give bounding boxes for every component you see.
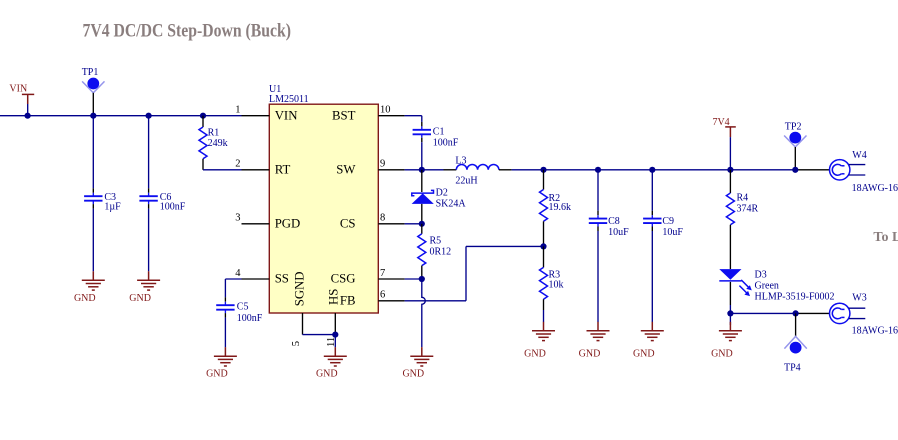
svg-text:18AWG-16: 18AWG-16 (852, 326, 898, 337)
capacitor C8 (589, 215, 607, 226)
svg-text:C8: C8 (608, 216, 620, 227)
inductor L3 (456, 164, 499, 169)
lead W3 pin (797, 312, 830, 314)
wire SW node (405, 169, 444, 171)
test point TP1 (82, 78, 104, 93)
LED D3 (719, 269, 752, 296)
svg-text:249k: 249k (208, 138, 228, 149)
resistor R3 (540, 267, 548, 299)
svg-text:Green: Green (755, 281, 779, 292)
junction TP4 / W3 rail (793, 310, 799, 316)
wire rail to C6 (148, 116, 150, 189)
svg-text:9: 9 (380, 159, 385, 170)
ground below R3 (524, 322, 555, 360)
svg-text:374R: 374R (737, 204, 759, 215)
svg-text:GND: GND (524, 348, 546, 359)
diode D2 (Schottky) (412, 190, 434, 204)
svg-text:R1: R1 (208, 128, 220, 139)
capacitor C9 (643, 215, 661, 226)
lead R2 bottom (543, 221, 545, 246)
connector W4 (830, 160, 866, 180)
wire C5 vertical (224, 279, 226, 297)
wire R4 to D3 (729, 225, 731, 269)
svg-text:C1: C1 (433, 127, 445, 138)
svg-text:10: 10 (380, 104, 391, 115)
junction R2 / R3 / FB (540, 243, 546, 249)
svg-text:CS: CS (340, 216, 356, 230)
svg-text:7V4 DC/DC Step-Down (Buck): 7V4 DC/DC Step-Down (Buck) (83, 21, 292, 42)
svg-text:VIN: VIN (9, 83, 27, 94)
wire pin 7 to node (405, 278, 422, 280)
lead R4 top (729, 170, 731, 193)
svg-text:PGD: PGD (275, 216, 301, 230)
svg-text:R4: R4 (737, 192, 749, 203)
resistor R1 (199, 127, 207, 159)
lead C9 bottom (651, 227, 653, 232)
wire C3 to GND (92, 209, 94, 272)
net port VIN (9, 83, 34, 115)
wire TP4 stub (795, 313, 797, 336)
svg-text:1: 1 (235, 104, 240, 115)
ground below HS pin (316, 347, 347, 380)
junction TP1 / rail (90, 113, 96, 119)
pin 9 lead SW (378, 169, 404, 171)
svg-text:GND: GND (74, 293, 96, 304)
lead C6 top (148, 188, 150, 193)
svg-text:8: 8 (380, 213, 385, 224)
svg-text:To Lo: To Lo (873, 230, 898, 245)
svg-text:GND: GND (579, 348, 601, 359)
wire C5 to GND (224, 318, 226, 348)
op-amp U1 LM25011 body (269, 104, 378, 313)
svg-text:HS: HS (326, 289, 340, 305)
svg-text:GND: GND (711, 348, 733, 359)
junction rail / R1 (200, 113, 206, 119)
ground below C3 (74, 271, 105, 304)
wire VIN rail (0, 115, 242, 117)
svg-text:GND: GND (206, 369, 228, 380)
junction rail / C9 (649, 167, 655, 173)
lead D2 anode (421, 204, 423, 224)
svg-text:HLMP-3519-F0002: HLMP-3519-F0002 (755, 291, 835, 302)
lead C9 top (651, 211, 653, 216)
capacitor C3 (84, 193, 102, 204)
lead C1 bottom (421, 138, 423, 143)
junction rail / C6 (146, 113, 152, 119)
lead R5 bottom (421, 266, 423, 279)
junction D3 / W3 rail (727, 310, 733, 316)
lead R1 top (202, 116, 204, 127)
junction rail / C8 (595, 167, 601, 173)
lead C8 top (597, 211, 599, 216)
svg-text:D2: D2 (436, 187, 448, 198)
wire rail to C8 (597, 170, 599, 211)
ground below D3 (711, 322, 742, 360)
svg-text:5: 5 (291, 341, 302, 346)
svg-text:BST: BST (332, 108, 356, 122)
svg-text:7: 7 (380, 268, 385, 279)
svg-text:GND: GND (316, 369, 338, 380)
wire R1 to pin 2 (203, 169, 242, 171)
svg-text:SW: SW (336, 162, 356, 176)
svg-text:1µF: 1µF (104, 202, 121, 213)
junction rail / 7V4 / R4 (727, 167, 733, 173)
wire FB horizontal (405, 300, 466, 302)
svg-text:10uF: 10uF (662, 227, 683, 238)
resistor R2 (540, 190, 548, 222)
wire C1 vertical (421, 116, 423, 122)
wire pin 4 to C5 (225, 278, 241, 280)
wire C6 to GND (148, 209, 150, 272)
test point TP4 (784, 336, 806, 353)
net port 7V4 (712, 117, 735, 170)
wire CSG net to GND with hop over FB (422, 279, 426, 347)
svg-text:0R12: 0R12 (430, 247, 452, 258)
svg-text:100nF: 100nF (433, 138, 459, 149)
lead D3 cathode (729, 282, 731, 305)
pin 2 lead RT (242, 169, 270, 171)
junction D2 / pin 8 / R5 (419, 221, 425, 227)
junction VIN port / rail (25, 113, 31, 119)
lead R2 top (543, 170, 545, 190)
pin 7 lead CSG (378, 278, 404, 280)
svg-text:2: 2 (235, 159, 240, 170)
test point TP2 (784, 132, 806, 147)
wire FB to divider (466, 245, 544, 247)
wire pin 8 to node (405, 223, 422, 225)
svg-text:10k: 10k (549, 279, 564, 290)
svg-text:19.6k: 19.6k (549, 202, 572, 213)
wire FB vertical (465, 246, 467, 300)
lead C6 bottom (148, 204, 150, 209)
svg-text:VIN: VIN (275, 108, 298, 122)
ground below C5 (206, 347, 237, 380)
lead L3 right (499, 169, 512, 171)
svg-text:C5: C5 (237, 302, 249, 313)
svg-text:SK24A: SK24A (436, 199, 467, 210)
svg-text:100nF: 100nF (160, 202, 186, 213)
lead R1 bottom (202, 159, 204, 170)
svg-text:W3: W3 (852, 292, 866, 303)
wire rail to C9 (651, 170, 653, 211)
pin 6 lead FB (378, 300, 404, 302)
pin 5 lead SGND (302, 313, 304, 335)
svg-text:TP1: TP1 (82, 67, 99, 78)
svg-text:C9: C9 (662, 216, 674, 227)
lead R5 top (421, 224, 423, 234)
lead C5 top (224, 297, 226, 302)
lead C3 top (92, 188, 94, 193)
junction SW / C1 / D2 (419, 167, 425, 173)
lead R3 top (543, 246, 545, 267)
svg-text:GND: GND (129, 293, 151, 304)
svg-text:SGND: SGND (293, 271, 307, 306)
svg-text:100nF: 100nF (237, 313, 263, 324)
wire C1 to SW node (421, 142, 423, 170)
svg-text:18AWG-16: 18AWG-16 (852, 183, 898, 194)
wire HS to GND (334, 335, 336, 348)
capacitor C6 (139, 193, 157, 204)
wire C9 to GND (651, 231, 653, 322)
lead L3 left (444, 169, 457, 171)
lead C3 bottom (92, 204, 94, 209)
junction TP2 / rail (792, 167, 798, 173)
wire SGND to HS (303, 334, 336, 336)
junction rail / R2 (540, 167, 546, 173)
lead R3 bottom (543, 299, 545, 310)
pin 4 lead SS (242, 278, 270, 280)
lead C1 top (421, 122, 423, 127)
svg-text:SS: SS (275, 272, 289, 286)
resistor R5 (418, 234, 426, 266)
svg-text:LM25011: LM25011 (269, 94, 309, 105)
ground below C9 (633, 322, 664, 360)
wire rail to C3 (92, 116, 94, 189)
capacitor C1 (413, 126, 431, 137)
svg-text:10uF: 10uF (608, 227, 629, 238)
wire D3 to W3 rail (729, 305, 731, 313)
svg-text:6: 6 (380, 290, 385, 301)
wire output rail 7V4 (512, 169, 797, 171)
pin 1 lead VIN (242, 115, 270, 117)
ground below C8 (579, 322, 610, 360)
svg-text:RT: RT (275, 162, 291, 176)
svg-text:GND: GND (633, 348, 655, 359)
svg-text:L3: L3 (455, 156, 466, 167)
pin 11 lead HS (334, 313, 336, 335)
lead C5 bottom (224, 313, 226, 318)
junction R5 / pin 7 (419, 276, 425, 282)
lead D2 cathode (421, 170, 423, 192)
wire node to GND (729, 313, 731, 325)
svg-text:R5: R5 (430, 235, 442, 246)
wire R3 to GND (543, 310, 545, 322)
pin 10 lead BST (378, 115, 404, 117)
svg-text:W4: W4 (852, 150, 866, 161)
wire pin10 to C1 (405, 115, 422, 117)
wire C8 to GND (597, 231, 599, 322)
svg-text:TP2: TP2 (785, 122, 802, 133)
pin 8 lead CS (378, 223, 404, 225)
svg-text:GND: GND (402, 369, 424, 380)
svg-text:CSG: CSG (331, 272, 356, 286)
svg-text:22uH: 22uH (455, 175, 477, 186)
svg-text:TP4: TP4 (784, 362, 801, 373)
svg-text:3: 3 (235, 213, 240, 224)
connector W3 (830, 303, 866, 323)
svg-text:D3: D3 (755, 270, 767, 281)
wire W3 rail (730, 312, 797, 314)
capacitor C5 (216, 302, 234, 313)
lead C8 bottom (597, 227, 599, 232)
ground below C6 (129, 271, 160, 304)
svg-text:FB: FB (340, 293, 356, 307)
junction SGND / HS (332, 332, 338, 338)
wire TP1 stub (92, 93, 94, 116)
lead W4 pin (797, 169, 830, 171)
ground below CSG net (402, 347, 433, 380)
resistor R4 (726, 193, 734, 225)
pin 3 lead PGD (242, 223, 270, 225)
wire TP2 stub (794, 147, 796, 170)
svg-text:4: 4 (235, 268, 241, 279)
